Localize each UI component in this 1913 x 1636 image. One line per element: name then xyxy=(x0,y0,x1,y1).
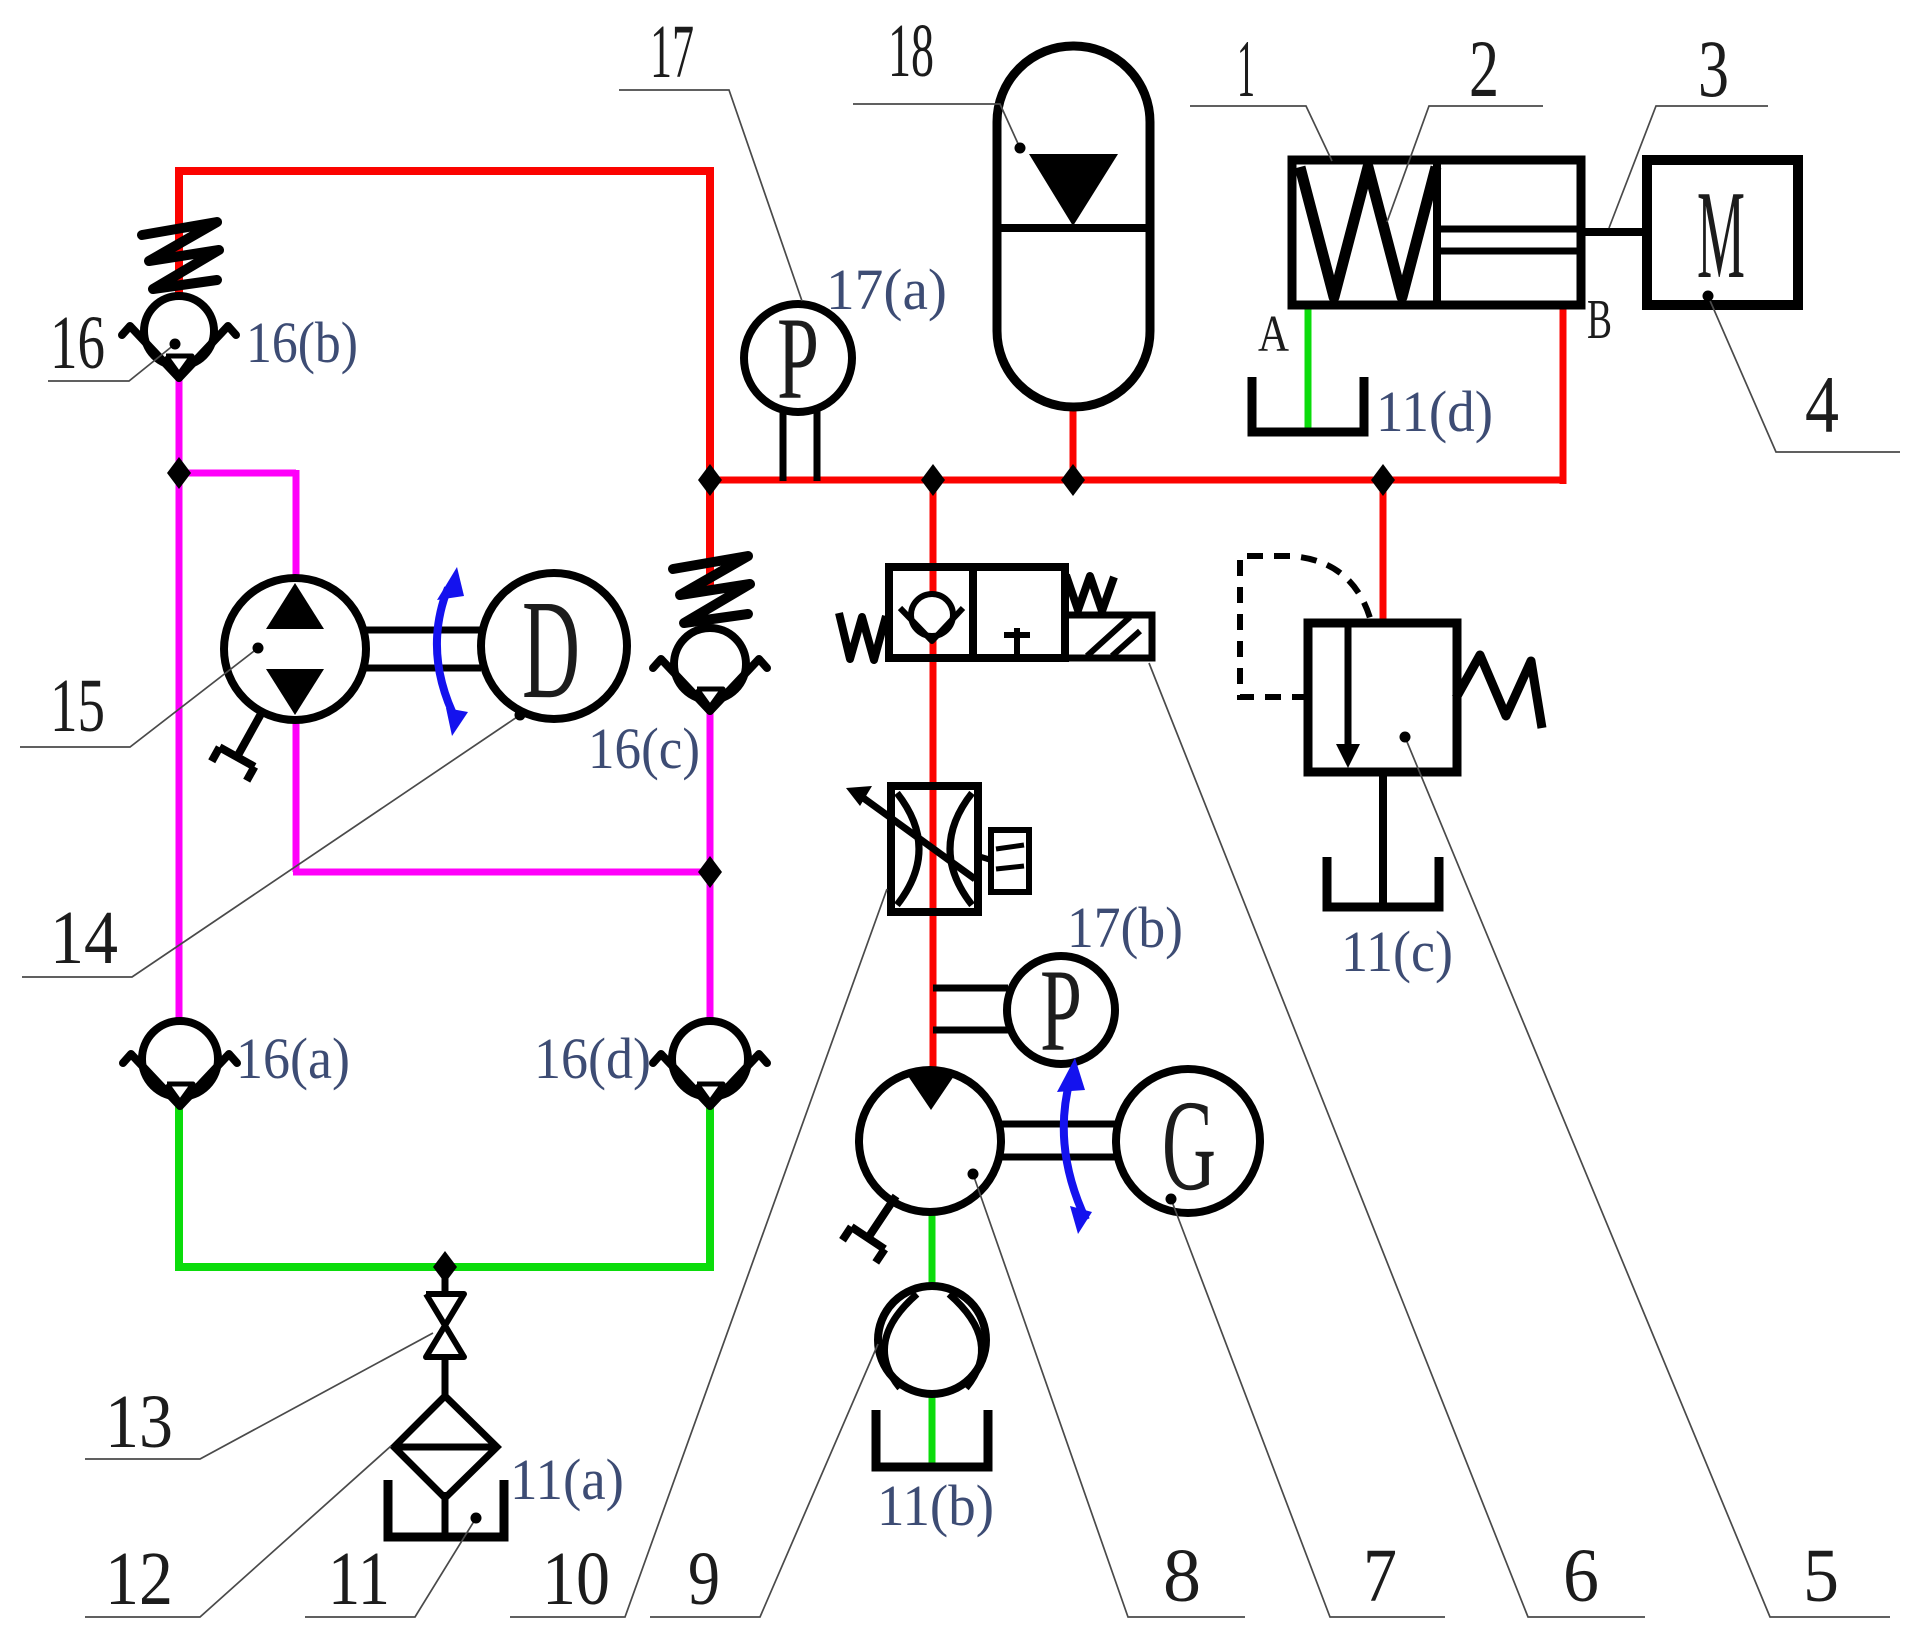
svg-text:8: 8 xyxy=(1163,1534,1201,1618)
svg-text:11: 11 xyxy=(328,1537,390,1621)
svg-text:11(d): 11(d) xyxy=(1376,379,1493,444)
svg-text:17: 17 xyxy=(650,10,694,94)
svg-text:16(d): 16(d) xyxy=(534,1026,651,1091)
svg-text:4: 4 xyxy=(1805,359,1839,450)
svg-text:9: 9 xyxy=(688,1537,720,1621)
svg-text:B: B xyxy=(1587,289,1612,351)
svg-text:14: 14 xyxy=(50,896,118,980)
svg-text:16(c): 16(c) xyxy=(588,716,700,781)
svg-text:17(b): 17(b) xyxy=(1067,895,1183,960)
svg-text:10: 10 xyxy=(542,1537,610,1621)
svg-text:16(a): 16(a) xyxy=(236,1026,350,1091)
svg-text:17(a): 17(a) xyxy=(826,257,947,322)
svg-text:11(b): 11(b) xyxy=(877,1473,994,1538)
svg-text:5: 5 xyxy=(1803,1534,1839,1618)
svg-text:12: 12 xyxy=(105,1537,173,1621)
svg-text:D: D xyxy=(522,570,580,728)
svg-text:11(c): 11(c) xyxy=(1341,919,1453,984)
svg-text:P: P xyxy=(777,293,819,424)
svg-text:15: 15 xyxy=(50,664,105,748)
svg-text:A: A xyxy=(1258,306,1289,363)
svg-text:3: 3 xyxy=(1698,23,1729,114)
svg-text:16: 16 xyxy=(50,301,105,385)
svg-text:7: 7 xyxy=(1363,1534,1397,1618)
svg-text:2: 2 xyxy=(1469,23,1499,114)
svg-text:11(a): 11(a) xyxy=(510,1447,624,1512)
svg-text:18: 18 xyxy=(888,9,934,93)
svg-text:M: M xyxy=(1697,166,1745,305)
svg-text:16(b): 16(b) xyxy=(246,310,358,375)
svg-text:P: P xyxy=(1040,945,1082,1076)
svg-text:6: 6 xyxy=(1563,1534,1599,1618)
svg-text:1: 1 xyxy=(1237,23,1255,114)
svg-text:13: 13 xyxy=(105,1380,173,1464)
